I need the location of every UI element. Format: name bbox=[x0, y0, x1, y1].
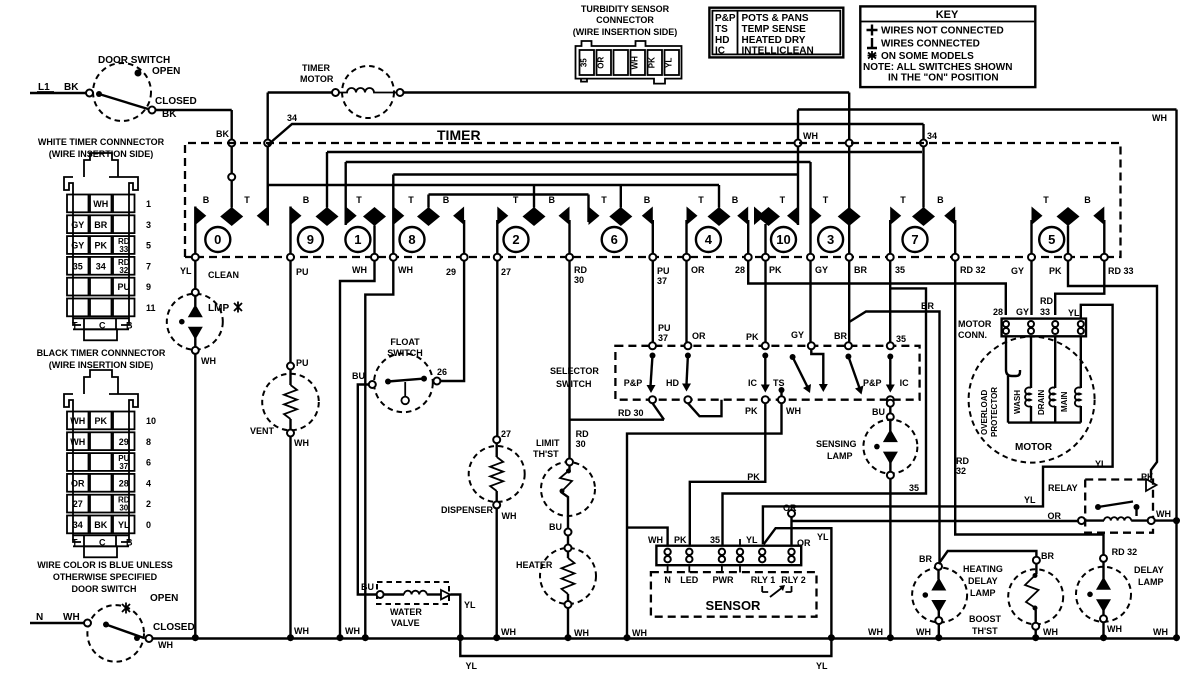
svg-text:LAMP: LAMP bbox=[970, 588, 996, 598]
svg-text:GY: GY bbox=[71, 241, 84, 251]
svg-text:BR: BR bbox=[94, 220, 107, 230]
svg-text:T: T bbox=[244, 195, 250, 205]
svg-text:TS: TS bbox=[773, 378, 785, 388]
svg-text:B: B bbox=[303, 195, 310, 205]
svg-text:(WIRE INSERTION SIDE): (WIRE INSERTION SIDE) bbox=[49, 149, 154, 159]
float switch FS bbox=[352, 337, 447, 412]
svg-text:YL: YL bbox=[1024, 495, 1036, 505]
wire timer bus F (cam8 diamond to cam6 T) bbox=[429, 193, 589, 195]
svg-text:3: 3 bbox=[146, 220, 151, 230]
thermostat BOOST TH'ST bbox=[969, 564, 1063, 636]
svg-text:1: 1 bbox=[354, 232, 361, 247]
svg-text:BR: BR bbox=[1041, 551, 1054, 561]
svg-text:PK: PK bbox=[95, 241, 108, 251]
svg-text:LIMIT: LIMIT bbox=[536, 438, 560, 448]
svg-text:OPEN: OPEN bbox=[152, 66, 180, 77]
svg-text:WH: WH bbox=[201, 356, 216, 366]
svg-text:VENT: VENT bbox=[250, 426, 275, 436]
wire N input bbox=[30, 612, 84, 623]
svg-text:28: 28 bbox=[993, 307, 1003, 317]
wire BR timer to selector bbox=[834, 261, 849, 343]
svg-text:PU: PU bbox=[296, 267, 309, 277]
svg-text:HEATED DRY: HEATED DRY bbox=[742, 35, 806, 46]
svg-text:PK: PK bbox=[674, 535, 687, 545]
wire 35 branch to sensor PWR bbox=[723, 288, 927, 545]
svg-text:WH: WH bbox=[916, 627, 931, 637]
svg-text:RELAY: RELAY bbox=[1048, 483, 1078, 493]
svg-text:HEATING: HEATING bbox=[963, 564, 1003, 574]
selector contact P&P bbox=[624, 342, 656, 403]
svg-text:B: B bbox=[1084, 195, 1091, 205]
svg-text:T: T bbox=[1043, 195, 1049, 205]
svg-text:DISPENSER: DISPENSER bbox=[441, 505, 494, 515]
connector J2 black timer connector bbox=[37, 348, 166, 557]
svg-text:WH: WH bbox=[158, 640, 173, 650]
wire WH dispenser to bus bbox=[493, 508, 516, 641]
timer motor TM bbox=[300, 63, 404, 118]
svg-text:35: 35 bbox=[909, 483, 919, 493]
svg-text:YL: YL bbox=[118, 520, 130, 530]
svg-text:RLY 1: RLY 1 bbox=[751, 575, 776, 585]
svg-text:T: T bbox=[408, 195, 414, 205]
svg-text:LAMP: LAMP bbox=[1138, 577, 1164, 587]
wire OR timer to selector bbox=[687, 261, 707, 343]
selector contact P&P 2 bbox=[845, 342, 882, 394]
svg-text:SENSING: SENSING bbox=[816, 439, 857, 449]
svg-text:TH'ST: TH'ST bbox=[972, 626, 998, 636]
svg-text:TURBIDITY SENSOR: TURBIDITY SENSOR bbox=[581, 4, 670, 14]
svg-text:WASH: WASH bbox=[1013, 390, 1022, 414]
svg-text:BK: BK bbox=[64, 82, 79, 93]
wire WH2 (timer) jog to bus bbox=[345, 261, 393, 642]
svg-text:BR: BR bbox=[854, 265, 867, 275]
svg-text:N: N bbox=[36, 612, 43, 623]
svg-text:YL: YL bbox=[466, 661, 478, 671]
wire limit to heater bbox=[567, 536, 569, 545]
svg-text:PK: PK bbox=[1049, 266, 1062, 276]
wire timer motor to cam 3 diamond bbox=[404, 93, 853, 208]
svg-text:PROTECTOR: PROTECTOR bbox=[990, 387, 999, 437]
svg-text:9: 9 bbox=[146, 282, 151, 292]
svg-text:WH: WH bbox=[93, 199, 108, 209]
note wire color bbox=[37, 560, 173, 594]
svg-text:CLOSED: CLOSED bbox=[153, 622, 195, 633]
wire BR heating lamp to boost thermostat bbox=[939, 551, 1055, 564]
wire WH sensing lamp to bus bbox=[868, 479, 894, 642]
svg-text:8: 8 bbox=[146, 437, 151, 447]
svg-text:B: B bbox=[549, 195, 556, 205]
cam switch 3 bbox=[807, 162, 861, 261]
svg-text:WH: WH bbox=[803, 131, 818, 141]
svg-text:WHITE TIMER CONNNECTOR: WHITE TIMER CONNNECTOR bbox=[38, 137, 165, 147]
svg-text:37: 37 bbox=[658, 333, 668, 343]
wire WH heating delay lamp to bus bbox=[916, 624, 942, 641]
svg-text:PU: PU bbox=[118, 282, 131, 292]
lamp CLEAN bbox=[167, 289, 242, 354]
svg-text:YL: YL bbox=[746, 535, 758, 545]
wire timer bus B (34 to cam 9/7) bbox=[327, 151, 922, 153]
wire GY timer to motor connector bbox=[1030, 261, 1032, 315]
svg-text:PK: PK bbox=[746, 332, 759, 342]
svg-text:WH: WH bbox=[63, 612, 80, 623]
overload protector bbox=[1006, 336, 1020, 423]
svg-text:WH: WH bbox=[574, 628, 589, 638]
svg-text:TEMP SENSE: TEMP SENSE bbox=[742, 24, 807, 35]
svg-text:WH: WH bbox=[648, 535, 663, 545]
wire BU float to water valve bbox=[358, 385, 377, 595]
svg-text:OR: OR bbox=[691, 265, 705, 275]
wire timer motor feed (left to node 268) bbox=[264, 93, 332, 226]
cam switch 4 bbox=[683, 185, 752, 261]
svg-text:7: 7 bbox=[911, 232, 918, 247]
wire WH delay lamp to bus bbox=[1100, 622, 1180, 641]
svg-text:7: 7 bbox=[146, 261, 151, 271]
door switch DS2 (bottom) bbox=[84, 593, 195, 662]
svg-text:WATER: WATER bbox=[390, 607, 422, 617]
svg-text:MOTOR: MOTOR bbox=[300, 74, 334, 84]
svg-text:32: 32 bbox=[119, 266, 128, 275]
svg-text:0: 0 bbox=[146, 520, 151, 530]
svg-text:PK: PK bbox=[745, 406, 758, 416]
svg-text:28: 28 bbox=[735, 265, 745, 275]
svg-text:WH: WH bbox=[1153, 627, 1168, 637]
svg-text:TIMER: TIMER bbox=[302, 63, 330, 73]
svg-text:MAIN: MAIN bbox=[1060, 391, 1069, 412]
svg-text:9: 9 bbox=[307, 232, 314, 247]
svg-text:WH: WH bbox=[1043, 627, 1058, 637]
svg-text:4: 4 bbox=[146, 478, 151, 488]
winding WASH bbox=[1030, 336, 1032, 388]
svg-text:VALVE: VALVE bbox=[391, 618, 420, 628]
svg-text:WH: WH bbox=[398, 265, 413, 275]
svg-text:34: 34 bbox=[287, 113, 297, 123]
wire WH drop to cam 10 bbox=[795, 110, 819, 207]
wire right border bus bbox=[1175, 110, 1177, 638]
svg-text:LAMP: LAMP bbox=[827, 451, 853, 461]
svg-text:PU: PU bbox=[296, 358, 309, 368]
lamp SENSING LAMP bbox=[816, 420, 917, 479]
selector contact IC bbox=[748, 342, 770, 403]
svg-text:WH: WH bbox=[1107, 624, 1122, 634]
svg-text:OR: OR bbox=[1048, 511, 1062, 521]
svg-text:P&P: P&P bbox=[715, 13, 736, 24]
svg-text:YL: YL bbox=[180, 266, 192, 276]
svg-text:11: 11 bbox=[146, 303, 156, 313]
cam switch 9 bbox=[287, 152, 339, 261]
svg-text:ON SOME MODELS: ON SOME MODELS bbox=[881, 51, 974, 62]
svg-text:29: 29 bbox=[119, 437, 129, 447]
legend box abbreviations bbox=[709, 8, 843, 58]
svg-text:OVERLOAD: OVERLOAD bbox=[980, 389, 989, 435]
winding DRAIN bbox=[1054, 336, 1056, 388]
svg-text:4: 4 bbox=[705, 232, 713, 247]
svg-text:B: B bbox=[203, 195, 210, 205]
svg-text:OR: OR bbox=[71, 478, 85, 488]
svg-text:WH: WH bbox=[786, 406, 801, 416]
svg-text:6: 6 bbox=[611, 232, 618, 247]
wire BK drop to timer cam 0 bbox=[216, 110, 235, 208]
svg-text:WH: WH bbox=[294, 438, 309, 448]
svg-text:IC: IC bbox=[715, 46, 725, 57]
wire L1 bus (top horizontal to right border) bbox=[156, 109, 232, 111]
svg-text:RD: RD bbox=[956, 456, 969, 466]
selector switch box bbox=[550, 346, 920, 400]
wire OR selector bottom stub bbox=[688, 400, 722, 417]
svg-text:DRAIN: DRAIN bbox=[1037, 389, 1046, 415]
wire L1 input bbox=[30, 82, 86, 93]
svg-text:RD 30: RD 30 bbox=[618, 408, 644, 418]
svg-text:IC: IC bbox=[900, 378, 910, 388]
svg-text:HEATER: HEATER bbox=[516, 560, 553, 570]
key box bbox=[860, 6, 1035, 87]
wire 28 timer to motor connector bbox=[748, 261, 1006, 315]
timer output labels bbox=[180, 265, 1134, 286]
svg-text:34: 34 bbox=[927, 131, 937, 141]
svg-text:RD: RD bbox=[574, 265, 587, 275]
winding MAIN bbox=[1080, 336, 1082, 388]
svg-text:3: 3 bbox=[827, 232, 834, 247]
sensor box bbox=[651, 572, 817, 617]
wire timer bus E (cam0 T to cam4 diamond) bbox=[268, 184, 719, 186]
svg-text:T: T bbox=[356, 195, 362, 205]
svg-text:27: 27 bbox=[501, 429, 511, 439]
svg-text:(WIRE INSERTION SIDE): (WIRE INSERTION SIDE) bbox=[573, 27, 678, 37]
svg-text:OR: OR bbox=[692, 331, 706, 341]
svg-text:YL: YL bbox=[816, 661, 828, 671]
svg-text:BU: BU bbox=[361, 582, 374, 592]
svg-text:MOTOR: MOTOR bbox=[1015, 442, 1053, 453]
svg-text:35: 35 bbox=[895, 265, 905, 275]
connector motor conn bbox=[958, 296, 1086, 340]
svg-text:35: 35 bbox=[710, 535, 720, 545]
motor MOTOR bbox=[969, 336, 1095, 463]
svg-text:B: B bbox=[937, 195, 944, 205]
svg-text:0: 0 bbox=[214, 232, 221, 247]
svg-text:CLEAN: CLEAN bbox=[208, 270, 239, 280]
svg-text:DOOR SWITCH: DOOR SWITCH bbox=[98, 55, 170, 66]
svg-text:WIRES CONNECTED: WIRES CONNECTED bbox=[881, 39, 980, 50]
svg-text:B: B bbox=[732, 195, 739, 205]
svg-text:RD: RD bbox=[1040, 296, 1053, 306]
svg-text:BR: BR bbox=[834, 331, 847, 341]
svg-text:LED: LED bbox=[680, 575, 699, 585]
lamp DELAY LAMP bbox=[1076, 555, 1164, 622]
lamp HEATING DELAY LAMP bbox=[912, 563, 1003, 624]
wire YL to clean lamp bbox=[194, 261, 196, 289]
svg-text:26: 26 bbox=[437, 367, 447, 377]
svg-text:IC: IC bbox=[748, 378, 758, 388]
svg-text:N: N bbox=[664, 575, 671, 585]
connector J3 turbidity sensor connector bbox=[573, 4, 682, 84]
selector contact TS bbox=[773, 354, 811, 403]
resistor HEATER bbox=[516, 545, 596, 609]
wire RD33 timer to motor connector bbox=[1055, 261, 1104, 315]
cam switch 6 bbox=[589, 185, 657, 261]
svg-text:YL: YL bbox=[665, 57, 674, 67]
wire sensor PWR jumper stub bbox=[739, 539, 741, 546]
wire OR sensor RLY2 to relay bbox=[783, 503, 1078, 548]
wire PU37 timer to selector bbox=[653, 261, 671, 343]
resistor DISPENSER bbox=[441, 436, 525, 515]
wire WH heater to bus bbox=[565, 608, 590, 641]
svg-text:PK: PK bbox=[747, 472, 760, 482]
svg-text:YL: YL bbox=[464, 600, 476, 610]
door switch DS1 (top) bbox=[86, 55, 197, 121]
svg-text:T: T bbox=[513, 195, 519, 205]
svg-text:OR: OR bbox=[783, 503, 797, 513]
svg-text:35: 35 bbox=[896, 334, 906, 344]
svg-text:IN THE "ON" POSITION: IN THE "ON" POSITION bbox=[888, 73, 999, 84]
wire WH clean lamp to bus bbox=[192, 354, 216, 641]
wire WH boost to bus bbox=[1032, 627, 1058, 641]
svg-text:B: B bbox=[443, 195, 450, 205]
svg-text:27: 27 bbox=[73, 499, 83, 509]
wire 34 (timer bus) bbox=[268, 113, 937, 208]
resistor VENT bbox=[250, 363, 319, 437]
svg-text:RD 33: RD 33 bbox=[1108, 266, 1134, 276]
svg-text:35: 35 bbox=[73, 261, 83, 271]
svg-text:PWR: PWR bbox=[713, 575, 734, 585]
sensor relay contact icon bbox=[762, 585, 791, 597]
wire timer bus C (cam1 T to cam3 T) bbox=[346, 161, 811, 163]
connector sensor terminal bar bbox=[648, 535, 806, 585]
svg-text:RD 32: RD 32 bbox=[960, 265, 986, 275]
cam switch 0 bbox=[192, 185, 268, 261]
cam switch 10 bbox=[754, 195, 798, 261]
wire RD30 timer to limit thermostat bbox=[570, 261, 590, 459]
svg-text:1: 1 bbox=[146, 199, 151, 209]
svg-text:PK: PK bbox=[95, 416, 108, 426]
svg-text:TH'ST: TH'ST bbox=[533, 449, 559, 459]
svg-text:HD: HD bbox=[715, 35, 729, 46]
svg-text:WIRES NOT CONNECTED: WIRES NOT CONNECTED bbox=[881, 26, 1004, 37]
svg-text:T: T bbox=[698, 195, 704, 205]
selector contact GY link bbox=[808, 342, 828, 392]
svg-text:37: 37 bbox=[657, 276, 667, 286]
svg-text:T: T bbox=[900, 195, 906, 205]
svg-text:6: 6 bbox=[146, 458, 151, 468]
svg-text:CONNECTOR: CONNECTOR bbox=[596, 15, 654, 25]
svg-text:OPEN: OPEN bbox=[150, 593, 178, 604]
svg-text:WH: WH bbox=[1156, 509, 1171, 519]
svg-text:YL: YL bbox=[1095, 459, 1107, 469]
svg-text:8: 8 bbox=[408, 232, 415, 247]
svg-text:GY: GY bbox=[791, 330, 804, 340]
svg-text:KEY: KEY bbox=[936, 9, 959, 21]
svg-text:10: 10 bbox=[776, 232, 790, 247]
svg-text:RLY 2: RLY 2 bbox=[781, 575, 806, 585]
svg-text:33: 33 bbox=[119, 245, 128, 254]
svg-text:37: 37 bbox=[119, 462, 128, 471]
svg-text:YL: YL bbox=[1068, 308, 1080, 318]
wire YL motor conn to relay area bbox=[763, 305, 1113, 544]
svg-text:BU: BU bbox=[352, 371, 365, 381]
svg-text:(WIRE INSERTION SIDE): (WIRE INSERTION SIDE) bbox=[49, 360, 154, 370]
svg-text:WH: WH bbox=[294, 626, 309, 636]
svg-text:GY: GY bbox=[1016, 307, 1029, 317]
svg-text:32: 32 bbox=[956, 466, 966, 476]
svg-text:RD: RD bbox=[576, 429, 589, 439]
svg-text:BR: BR bbox=[921, 301, 934, 311]
svg-text:FLOAT: FLOAT bbox=[390, 337, 420, 347]
svg-text:POTS & PANS: POTS & PANS bbox=[742, 13, 809, 24]
svg-text:BOOST: BOOST bbox=[969, 614, 1002, 624]
svg-text:GY: GY bbox=[1011, 266, 1024, 276]
svg-text:28: 28 bbox=[119, 478, 129, 488]
wire 27 to dispenser bbox=[497, 261, 511, 439]
wire 26 float to timer 29 bbox=[440, 261, 464, 381]
svg-text:30: 30 bbox=[576, 439, 586, 449]
sensor pin stubs bbox=[668, 565, 740, 572]
svg-text:T: T bbox=[823, 195, 829, 205]
wire WH relay to right border bbox=[1155, 509, 1180, 524]
svg-text:WH: WH bbox=[632, 628, 647, 638]
svg-text:29: 29 bbox=[446, 267, 456, 277]
cam switch 2 bbox=[494, 185, 573, 261]
svg-text:GY: GY bbox=[71, 220, 84, 230]
svg-text:WH: WH bbox=[868, 627, 883, 637]
wire WH neutral top bus bbox=[798, 110, 1177, 124]
svg-text:P&P: P&P bbox=[624, 378, 643, 388]
svg-text:33: 33 bbox=[1040, 307, 1050, 317]
svg-text:TS: TS bbox=[715, 24, 728, 35]
wire BU selector to sensing lamp bbox=[872, 400, 894, 421]
svg-text:WH: WH bbox=[352, 265, 367, 275]
svg-text:BK: BK bbox=[216, 129, 229, 139]
svg-text:DELAY: DELAY bbox=[968, 576, 998, 586]
svg-text:GY: GY bbox=[815, 265, 828, 275]
svg-text:SENSOR: SENSOR bbox=[706, 598, 762, 613]
svg-text:35: 35 bbox=[580, 58, 589, 67]
svg-text:T: T bbox=[780, 195, 786, 205]
svg-text:B: B bbox=[644, 195, 651, 205]
svg-text:34: 34 bbox=[96, 261, 106, 271]
wire WH (timer) jog to bus bbox=[337, 261, 375, 642]
wire PK timer to selector bbox=[746, 261, 766, 343]
svg-text:OTHERWISE SPECIFIED: OTHERWISE SPECIFIED bbox=[53, 572, 158, 582]
wire RD32 timer to delay lamp bbox=[955, 261, 1137, 557]
svg-text:2: 2 bbox=[146, 499, 151, 509]
svg-text:PU: PU bbox=[658, 323, 671, 333]
svg-text:BLACK TIMER CONNNECTOR: BLACK TIMER CONNNECTOR bbox=[37, 348, 166, 358]
svg-text:CONN.: CONN. bbox=[958, 330, 987, 340]
svg-text:WH: WH bbox=[70, 437, 85, 447]
svg-text:RD 32: RD 32 bbox=[1112, 547, 1138, 557]
svg-text:WH: WH bbox=[631, 56, 640, 70]
solenoid WATER VALVE bbox=[377, 582, 451, 628]
svg-text:LMP: LMP bbox=[208, 303, 229, 314]
svg-text:SWITCH: SWITCH bbox=[387, 348, 423, 358]
svg-text:NOTE: ALL SWITCHES SHOWN: NOTE: ALL SWITCHES SHOWN bbox=[863, 62, 1012, 73]
svg-text:T: T bbox=[601, 195, 607, 205]
connector J1 white timer connector bbox=[38, 137, 165, 340]
svg-text:P&P: P&P bbox=[863, 378, 882, 388]
cam switch 1 bbox=[345, 162, 386, 261]
svg-text:OR: OR bbox=[597, 56, 606, 68]
wire WH selector TS to sensor N and bus bbox=[624, 403, 802, 641]
svg-text:34: 34 bbox=[73, 520, 83, 530]
svg-text:BU: BU bbox=[872, 407, 885, 417]
svg-text:10: 10 bbox=[146, 416, 156, 426]
svg-text:PK: PK bbox=[769, 265, 782, 275]
svg-text:BR: BR bbox=[919, 554, 932, 564]
svg-text:TIMER: TIMER bbox=[437, 127, 481, 143]
wire PK selector to sensor LED bbox=[690, 403, 766, 546]
svg-text:YL: YL bbox=[817, 532, 829, 542]
wire WH vent to bus bbox=[287, 437, 309, 642]
svg-text:SWITCH: SWITCH bbox=[556, 379, 592, 389]
svg-text:WH: WH bbox=[501, 627, 516, 637]
